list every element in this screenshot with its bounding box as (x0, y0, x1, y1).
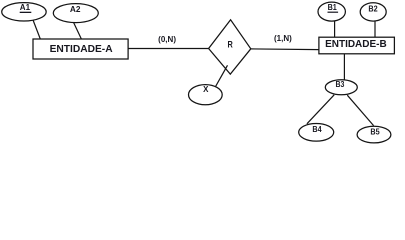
svg-text:R: R (227, 40, 232, 51)
svg-text:B5: B5 (370, 127, 380, 136)
svg-text:ENTIDADE-B: ENTIDADE-B (325, 39, 387, 50)
svg-text:(1,N): (1,N) (274, 34, 292, 43)
svg-text:B1: B1 (328, 3, 338, 12)
svg-text:(0,N): (0,N) (158, 35, 176, 44)
svg-text:B4: B4 (312, 125, 322, 134)
svg-text:B3: B3 (335, 80, 344, 89)
svg-text:A1: A1 (20, 3, 31, 12)
svg-text:A2: A2 (70, 5, 81, 14)
svg-text:ENTIDADE-A: ENTIDADE-A (50, 44, 113, 55)
svg-text:X: X (203, 85, 209, 94)
svg-text:B2: B2 (368, 4, 378, 13)
